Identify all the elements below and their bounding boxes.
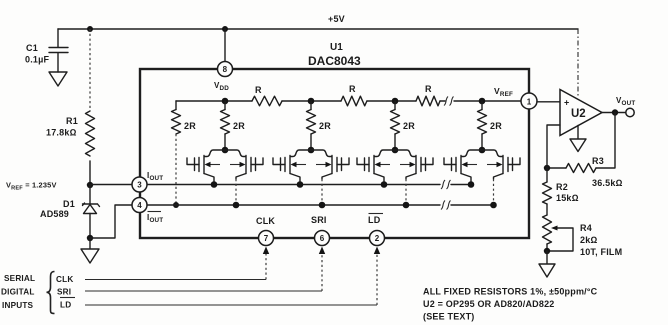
serial digital inputs label xyxy=(1,272,75,314)
pin 3 IOUT xyxy=(132,171,163,192)
MOSFET switch pair bit 1 xyxy=(187,147,263,209)
svg-text:CLK: CLK xyxy=(256,216,275,226)
SRI arrow to pin 6 xyxy=(321,253,323,291)
junction node on rail at C1/R1 branch xyxy=(87,26,93,32)
VOUT terminal xyxy=(626,108,634,116)
svg-text:U1: U1 xyxy=(330,42,343,53)
ground under C1 xyxy=(49,72,67,86)
resistor R3 36.5k xyxy=(566,156,623,188)
wire pin 4 to ground node xyxy=(90,205,132,238)
svg-text:INPUTS: INPUTS xyxy=(2,301,34,310)
wire rail to pin 8 xyxy=(224,29,226,62)
svg-text:VREF = 1.235V: VREF = 1.235V xyxy=(6,181,57,192)
svg-text:R: R xyxy=(255,85,262,95)
ground under D1 xyxy=(81,238,99,263)
pin 6 SRI xyxy=(311,215,330,246)
svg-text:IOUT: IOUT xyxy=(147,213,163,224)
2R resistor bit 2 xyxy=(307,101,332,150)
svg-text:IOUT: IOUT xyxy=(147,171,163,182)
svg-text:0.1µF: 0.1µF xyxy=(25,55,49,65)
svg-text:4: 4 xyxy=(137,201,142,210)
IOUT2 bus break mark xyxy=(441,201,451,210)
svg-text:VOUT: VOUT xyxy=(616,96,635,107)
svg-text:CLK: CLK xyxy=(56,275,73,284)
pin 8 VDD xyxy=(214,62,233,93)
svg-text:DAC8043: DAC8043 xyxy=(308,54,361,68)
feedback wire VOUT to R3 xyxy=(596,113,615,169)
svg-text:AD589: AD589 xyxy=(40,209,69,219)
wire R2 to R4 xyxy=(546,204,548,215)
svg-text:LD: LD xyxy=(60,301,71,310)
resistor R ladder segment 2 xyxy=(341,84,367,106)
DAC8043 package outline U1 xyxy=(140,69,529,238)
svg-text:LD: LD xyxy=(368,215,381,225)
notes text block xyxy=(423,287,598,322)
resistor R ladder segment 1 xyxy=(252,85,282,106)
junction node D1 / pin4 return xyxy=(87,235,93,241)
svg-text:ALL FIXED RESISTORS 1%, ±50ppm: ALL FIXED RESISTORS 1%, ±50ppm/°C xyxy=(423,287,598,297)
LD input wire xyxy=(85,304,377,306)
MOSFET switch pair bit 4 xyxy=(444,147,520,209)
node VREF = 1.235V xyxy=(87,182,93,188)
svg-text:VREF: VREF xyxy=(494,86,513,98)
op-amp output wire xyxy=(602,112,626,114)
wire node to inverting input xyxy=(547,125,560,168)
svg-text:SERIAL: SERIAL xyxy=(4,274,35,283)
ground under op-amp xyxy=(570,126,586,152)
svg-text:2R: 2R xyxy=(233,121,245,131)
junction node on rail at pin 8 branch xyxy=(222,26,228,32)
MOSFET switch pair bit 3 xyxy=(357,147,433,209)
termination dashed lead to IOUT2 bus xyxy=(175,134,177,205)
svg-text:D1: D1 xyxy=(63,199,75,209)
svg-text:SRI: SRI xyxy=(311,215,327,225)
svg-text:7: 7 xyxy=(264,234,269,243)
SRI input wire xyxy=(85,290,322,292)
resistor R1 17.8k xyxy=(46,111,95,156)
svg-text:U2: U2 xyxy=(571,108,586,120)
output junction node xyxy=(612,109,618,115)
pin 2 LD xyxy=(368,214,385,246)
LD arrow to pin 2 xyxy=(376,253,378,305)
wire R3 to inverting node xyxy=(547,167,566,169)
ladder node dots xyxy=(222,98,229,105)
svg-text:2R: 2R xyxy=(184,121,196,131)
svg-text:C1: C1 xyxy=(26,43,38,53)
svg-text:DIGITAL: DIGITAL xyxy=(1,288,35,297)
2R resistor bit 1 xyxy=(221,101,246,150)
svg-text:36.5kΩ: 36.5kΩ xyxy=(592,178,623,188)
svg-text:+: + xyxy=(564,98,569,108)
svg-text:10T, FILM: 10T, FILM xyxy=(580,247,622,257)
IOUT bus break mark xyxy=(441,180,451,189)
op-amp U2 xyxy=(560,90,602,136)
2R resistor bit 3 xyxy=(391,101,416,150)
svg-text:2R: 2R xyxy=(490,121,502,131)
svg-text:R: R xyxy=(349,84,356,94)
svg-text:R4: R4 xyxy=(580,223,592,233)
2R termination resistor (leftmost) xyxy=(172,101,197,134)
svg-text:2: 2 xyxy=(375,234,380,243)
svg-text:U2 = OP295 OR AD820/AD822: U2 = OP295 OR AD820/AD822 xyxy=(423,299,554,309)
svg-text:3: 3 xyxy=(137,181,142,190)
pin 1 VREF output xyxy=(494,86,537,109)
resistor R ladder segment 3 xyxy=(416,84,440,106)
svg-text:R1: R1 xyxy=(66,116,78,126)
wire R1 to VREF node xyxy=(89,161,91,185)
pin 4 IOUT2 (complement) xyxy=(132,198,163,225)
CLK input wire xyxy=(85,279,266,281)
MOSFET switch pair bit 2 xyxy=(273,147,349,209)
svg-text:2R: 2R xyxy=(403,121,415,131)
pin 7 CLK xyxy=(256,216,275,246)
resistor R2 15k xyxy=(543,168,579,204)
svg-text:R2: R2 xyxy=(556,182,568,192)
svg-text:6: 6 xyxy=(320,234,325,243)
svg-text:(SEE TEXT): (SEE TEXT) xyxy=(423,312,475,322)
svg-text:17.8kΩ: 17.8kΩ xyxy=(46,128,77,138)
svg-text:+5V: +5V xyxy=(328,14,345,24)
svg-text:8: 8 xyxy=(223,65,228,74)
svg-text:2kΩ: 2kΩ xyxy=(580,235,598,245)
trimpot R4 2k 10T film xyxy=(543,215,623,257)
+5V power rail xyxy=(58,28,578,30)
CLK arrow to pin 7 xyxy=(265,253,267,280)
svg-text:2R: 2R xyxy=(319,121,331,131)
wire rail down to R1 xyxy=(89,29,91,111)
2R resistor bit 4 xyxy=(478,101,503,150)
svg-text:R3: R3 xyxy=(592,156,604,166)
svg-text:1: 1 xyxy=(527,97,532,106)
wire pin1 to op amp xyxy=(537,101,560,103)
inverting input node xyxy=(544,165,550,171)
op amp supply dashed wire xyxy=(577,29,579,96)
ground under R4 xyxy=(539,251,555,277)
diode D1 AD589 xyxy=(40,185,100,238)
ladder break mark xyxy=(444,97,454,106)
IOUT2 bus wire (pin 4) xyxy=(147,204,494,206)
wire VREF node to pin 3 xyxy=(90,184,132,186)
wire rail to C1 xyxy=(57,29,59,47)
svg-text:R: R xyxy=(425,84,432,94)
IOUT bus wire (pin 3) xyxy=(147,184,471,186)
capacitor C1 0.1uF xyxy=(25,43,68,72)
svg-text:15kΩ: 15kΩ xyxy=(556,193,579,203)
svg-text:SRI: SRI xyxy=(57,288,71,297)
R-2R ladder top wire xyxy=(176,100,521,102)
svg-text:VDD: VDD xyxy=(214,81,229,92)
